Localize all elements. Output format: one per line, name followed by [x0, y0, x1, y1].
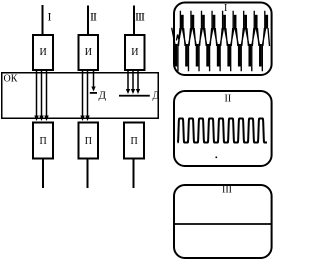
svg-text:I: I	[224, 3, 227, 14]
oscilloscope panel III	[174, 185, 272, 258]
photodetector bar Д (channel 2)	[90, 92, 97, 94]
wire fiber ch1 line c	[46, 70, 48, 118]
wire fiber ch1 line a	[36, 70, 38, 118]
wire output channel 1	[42, 160, 44, 189]
wire fiber ch3 line c (to detector)	[137, 70, 139, 90]
svg-text:I: I	[48, 10, 52, 24]
receiver block П2	[79, 123, 99, 159]
arrowhead ch2 a	[80, 116, 84, 122]
waveform III flat line	[174, 223, 271, 225]
oscilloscope panel I	[174, 3, 272, 76]
svg-text:II: II	[225, 94, 232, 105]
wire fiber ch3 line a (to detector)	[127, 70, 129, 90]
arrowhead ch3 b	[131, 89, 135, 94]
arrowhead ch1 c	[44, 116, 48, 122]
wire output channel 3	[133, 160, 135, 189]
arrowhead ch1 b	[39, 116, 43, 122]
wire fiber ch1 line b	[41, 70, 43, 118]
arrowhead ch3 c	[136, 89, 140, 94]
svg-text:П: П	[131, 136, 138, 147]
svg-text:И: И	[131, 47, 138, 58]
svg-text:III: III	[135, 10, 145, 24]
waveform II trace	[178, 119, 268, 143]
wire fiber ch2 line b	[87, 70, 89, 118]
wire fiber ch3 line b (to detector)	[132, 70, 134, 90]
svg-text:П: П	[85, 136, 92, 147]
svg-text:III: III	[222, 185, 232, 196]
svg-text:Д: Д	[99, 90, 107, 102]
svg-text:П: П	[40, 136, 47, 147]
oscilloscope panel II	[174, 91, 272, 166]
wire input channel III	[133, 6, 135, 36]
svg-text:Д: Д	[153, 91, 160, 102]
svg-text:И: И	[40, 47, 47, 58]
arrowhead ch1 a	[34, 116, 38, 122]
wire fiber ch2 line a	[82, 70, 84, 118]
arrowhead ch2 c	[91, 87, 95, 92]
arrowhead ch2 b	[85, 116, 89, 122]
transmitter block И3	[125, 35, 145, 70]
optical cable box ОК	[2, 73, 159, 119]
wire input channel II	[87, 6, 89, 36]
wire input channel I	[42, 5, 44, 35]
receiver block П1	[33, 123, 53, 159]
svg-text:ОК: ОК	[4, 74, 18, 85]
receiver block П3	[124, 123, 144, 159]
waveform I thick bars	[175, 15, 268, 67]
waveform I thin strokes	[172, 11, 270, 71]
dot artifact below panel II	[216, 157, 218, 159]
wire output channel 2	[87, 160, 89, 189]
photodetector bar Д (channel 3)	[119, 95, 150, 97]
transmitter block И2	[79, 35, 99, 70]
arrowhead ch3 a	[126, 89, 130, 94]
svg-text:И: И	[85, 47, 92, 58]
svg-text:II: II	[90, 10, 97, 24]
wire fiber ch2 line c (to detector)	[93, 70, 95, 88]
transmitter block И1	[33, 35, 53, 70]
